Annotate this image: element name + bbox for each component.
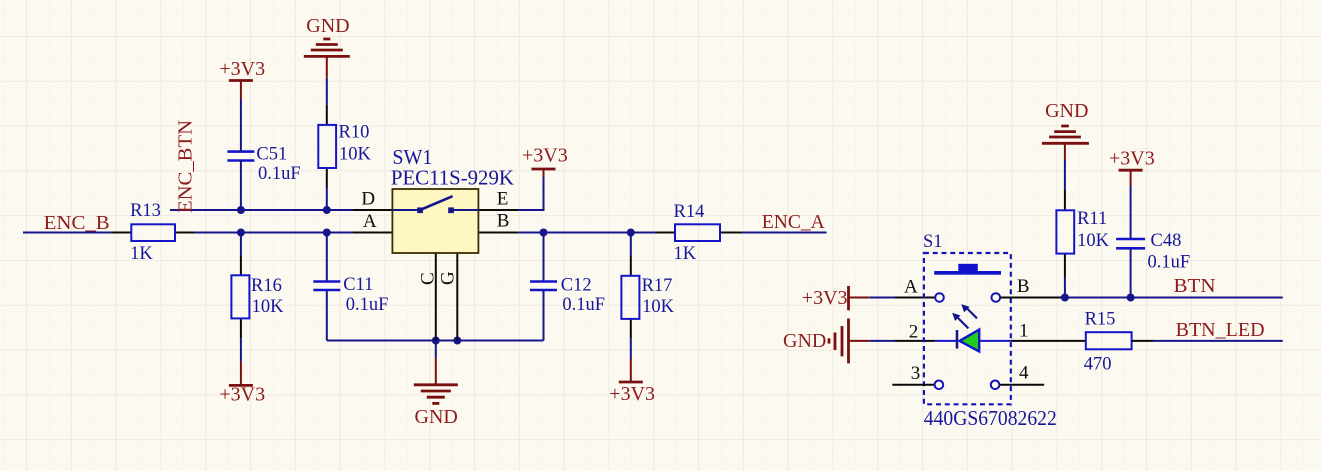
resistor R17 [621,233,674,339]
svg-text:R11: R11 [1077,209,1107,229]
junction B-row x543.5 [540,229,548,237]
wire BTN_LED net [1153,340,1283,342]
svg-text:BTN_LED: BTN_LED [1176,319,1265,341]
power +3V3 bottom left [219,338,265,405]
svg-text:PEC11S-929K: PEC11S-929K [391,166,514,190]
wire bottom rail [327,340,544,342]
wire B row [518,232,655,234]
svg-text:+3V3: +3V3 [219,58,265,80]
wire +3V3 to pin A [870,297,895,299]
svg-text:C51: C51 [256,145,287,165]
svg-text:1K: 1K [674,244,697,264]
svg-text:4: 4 [1019,362,1029,383]
button actuator [934,264,1001,275]
wire E pin to +3V3 [518,177,543,210]
svg-text:0.1uF: 0.1uF [1148,253,1191,273]
wire D row (ENC_BTN) [170,209,352,211]
svg-text:0.1uF: 0.1uF [346,295,389,315]
svg-text:BTN: BTN [1174,275,1216,297]
svg-text:GND: GND [783,330,826,352]
capacitor C11 [313,275,388,315]
ground GND top right [1042,100,1089,160]
power +3V3 left of S1 [802,286,870,310]
svg-text:S1: S1 [923,232,943,252]
svg-text:C12: C12 [561,276,592,296]
svg-text:B: B [497,211,510,232]
svg-text:GND: GND [415,406,458,428]
junction A-row x240.9 [237,229,245,237]
capacitor C48 [1116,231,1190,273]
wire ENC_A net [742,232,827,234]
resistor R15 [1084,309,1153,374]
power +3V3 top mid (pin E) [522,145,568,178]
switch SW1 body [352,145,518,341]
svg-text:R10: R10 [339,123,370,143]
ground GND top [304,15,350,78]
svg-text:2: 2 [909,321,919,342]
LED inside S1 [935,304,1011,351]
wire R11 to BTN row [1064,277,1066,298]
svg-text:10K: 10K [642,297,675,317]
wire GND to pin 2 [870,340,895,342]
svg-text:3: 3 [911,363,921,384]
pin 3 stub [892,384,935,386]
svg-text:R15: R15 [1085,309,1116,329]
resistor R13 [111,201,195,264]
switch S1 dashed body [923,232,1057,430]
svg-text:470: 470 [1084,355,1112,375]
svg-text:G: G [438,271,459,285]
svg-text:0.1uF: 0.1uF [258,164,301,184]
wire ENC_B net [23,232,111,234]
pin 2 lead [895,340,935,342]
wire pin 1 to R15 [1011,340,1086,342]
svg-text:GND: GND [1045,100,1088,122]
capacitor C51 [227,145,300,184]
svg-text:ENC_A: ENC_A [762,211,825,233]
power +3V3 bottom mid [609,338,655,405]
svg-text:R16: R16 [251,276,282,296]
wire +3V3 to C51 [240,99,242,152]
svg-text:+3V3: +3V3 [802,287,848,309]
wire A row left [195,232,352,234]
capacitor C12 [530,276,605,315]
pin 3 contact circle [935,381,944,390]
junction B-row x630.8 [627,229,635,237]
junction D-row x240.9 [237,206,245,214]
wire C48 to BTN row [1130,248,1132,297]
svg-text:D: D [361,189,375,210]
ground GND bottom [414,341,458,428]
wire C11 to bottom wire [326,290,328,341]
wire B junction to C12 [543,233,545,282]
svg-text:10K: 10K [1077,231,1110,251]
svg-text:ENC_B: ENC_B [44,212,110,234]
svg-text:C11: C11 [343,275,373,295]
svg-text:ENC_BTN: ENC_BTN [175,120,197,213]
svg-text:C: C [418,272,439,285]
pin B contact circle [992,293,1001,302]
svg-text:GND: GND [306,15,349,37]
wire A-row junction to C11 [326,233,328,282]
wire +3V3 to C48 [1130,186,1132,239]
svg-text:+3V3: +3V3 [1109,148,1155,170]
pin A lead [895,297,935,299]
svg-text:10K: 10K [252,297,285,317]
svg-text:A: A [904,277,918,298]
svg-text:R14: R14 [674,202,705,222]
pin 4 contact circle [991,381,1000,390]
svg-text:10K: 10K [339,144,372,164]
junction A-row x326.8 [323,229,331,237]
svg-text:+3V3: +3V3 [609,383,655,405]
resistor R14 [655,202,742,264]
wire C51 to D row [240,161,242,211]
junction pin G [453,337,461,345]
power +3V3 top right [1109,148,1155,187]
wire GND to R10 [326,78,328,105]
junction BTN x1064.9 [1061,294,1069,302]
wire pin B to junctions (BTN row) [1000,297,1065,299]
resistor R16 [231,233,284,339]
junction BTN x1130.6 [1127,294,1135,302]
junction pin C [432,337,440,345]
pin 4 stub [1000,384,1045,386]
svg-text:1: 1 [1019,320,1029,341]
resistor R10 [318,105,371,188]
svg-text:1K: 1K [130,244,153,264]
junction D-row x326.8 [323,206,331,214]
svg-text:B: B [1017,276,1030,297]
svg-text:A: A [363,211,377,232]
svg-text:0.1uF: 0.1uF [562,295,605,315]
svg-text:R17: R17 [642,276,673,296]
wire C12 to bottom rail [543,290,545,341]
svg-text:R13: R13 [130,201,161,221]
svg-text:+3V3: +3V3 [219,384,265,406]
ground GND left of S1 [783,319,870,364]
svg-text:E: E [497,188,509,209]
resistor R11 [1056,160,1109,277]
wire R10 to D row [326,188,328,210]
svg-text:440GS67082622: 440GS67082622 [924,406,1057,430]
svg-text:+3V3: +3V3 [522,145,568,167]
svg-text:C48: C48 [1151,231,1182,251]
pin A contact circle [935,293,944,302]
power +3V3 top left [219,58,265,99]
